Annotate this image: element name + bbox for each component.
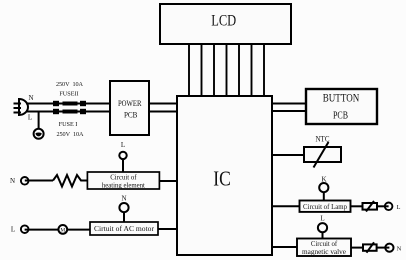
node K terminal above lamp box [319,176,328,193]
svg-text:BUTTON: BUTTON [323,91,360,105]
svg-text:Circuit of Lamp: Circuit of Lamp [303,203,347,211]
wire bus LCD to IC (7 lines) [189,44,264,96]
POWER PCB box [110,81,149,135]
svg-text:L: L [320,215,324,223]
svg-text:250V 10A: 250V 10A [56,81,84,88]
wire L terminal to heating box [122,159,124,172]
wire lamp box to fuse F3 [351,205,363,207]
wire valve box to fuse F4 [351,247,363,249]
LCD box [160,4,291,44]
wire AC motor box to IC [158,228,177,230]
svg-text:M: M [60,228,65,234]
circuit of Lamp box [300,201,351,212]
svg-text:magnetic valve: magnetic valve [302,249,346,256]
svg-text:heating element: heating element [102,182,145,189]
node N output terminal [385,244,401,253]
svg-text:PCB: PCB [124,110,138,120]
wire IC to magnetic valve box [272,246,297,248]
wire fuse F3 to L terminal [377,205,389,207]
wire L plug to POWER PCB [26,111,110,113]
wire heating box to IC [159,180,177,182]
fuse FUSE1 (L line) [53,109,86,114]
fuse F4 (valve line) [363,242,377,252]
wire IC to NTC [272,154,304,156]
wire IC to BUTTON PCB (1) [272,103,306,105]
node N terminal above AC motor box [119,195,128,213]
circuit of AC motor box [90,222,158,235]
ground earth symbol [34,129,44,139]
thermistor NTC [304,134,341,168]
svg-text:L: L [28,114,32,122]
svg-text:POWER: POWER [118,98,142,108]
svg-text:N: N [10,177,15,185]
circuit of magnetic valve box [297,239,351,257]
svg-text:N: N [121,195,126,203]
wire motor to AC motor box [67,229,90,231]
wire fuse F4 to N terminal [377,247,390,249]
svg-text:LCD: LCD [211,13,236,30]
wire L terminal to valve box [322,232,324,238]
resistor heating element zigzag [53,175,87,187]
svg-text:Cirtuit of AC motor: Cirtuit of AC motor [94,225,155,233]
svg-text:PCB: PCB [333,110,348,122]
fuse F3 (lamp line) [363,201,378,212]
svg-text:FUSE I: FUSE I [59,121,78,128]
wire IC to BUTTON PCB (2) [272,110,306,112]
svg-text:L: L [121,141,125,149]
circuit of heating element box [87,172,159,189]
svg-text:N: N [397,245,402,252]
wire N terminal to AC motor box [123,212,125,222]
wire POWER PCB to IC (L) [149,111,177,113]
node L output terminal [385,203,401,212]
wire K terminal to lamp box [323,192,325,200]
wire POWER PCB to IC (N) [149,103,177,105]
wire N terminal to resistor [25,180,53,182]
wire IC to lamp box [272,205,300,207]
svg-text:FUSEII: FUSEII [59,90,78,97]
svg-text:Circuit of: Circuit of [110,175,137,182]
svg-text:L: L [11,226,15,234]
IC U1 [177,96,272,255]
motor M symbol [58,225,67,234]
svg-text:Circuit of: Circuit of [311,241,338,248]
plug P1 [14,99,29,115]
node L terminal above heating circuit [119,141,126,159]
svg-text:250V 10A: 250V 10A [57,131,85,138]
fuse FUSE2 (N line) [53,101,86,106]
svg-text:L: L [397,204,401,211]
wire N plug to POWER PCB [26,103,110,105]
node L terminal above valve box [318,215,327,233]
svg-text:N: N [28,94,33,102]
svg-text:IC: IC [213,167,231,191]
BUTTON PCB box [306,89,377,124]
wire earth drop [38,112,40,130]
wire L terminal to motor [25,229,59,231]
